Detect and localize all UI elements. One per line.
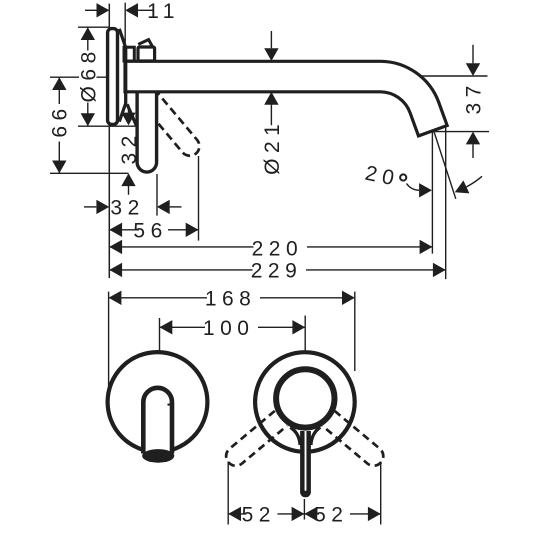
svg-text:220: 220 <box>252 237 304 260</box>
dimension 37 arrows <box>472 45 474 64</box>
extension line 168 left <box>108 292 110 394</box>
extension line 100 right <box>304 316 306 351</box>
handle small tick <box>168 403 172 406</box>
dimension 66 line <box>58 77 60 173</box>
svg-text:100: 100 <box>203 317 255 340</box>
extension line escutcheon front (11 dim) <box>124 3 126 48</box>
extension line 52 right <box>380 462 382 525</box>
dimension 229 line <box>109 269 445 271</box>
svg-text:11: 11 <box>147 0 180 23</box>
extension line 52 center <box>303 499 305 520</box>
cartridge block large <box>138 47 155 61</box>
svg-text:37: 37 <box>463 80 486 114</box>
svg-text:66: 66 <box>48 103 71 137</box>
dimension 56 line <box>109 229 198 231</box>
tick handle bottom (66 bottom) <box>50 172 129 174</box>
escutcheon circle left <box>108 352 208 452</box>
svg-text:32: 32 <box>110 197 144 220</box>
extension line 52 left <box>227 462 229 525</box>
svg-text:168: 168 <box>205 287 257 310</box>
svg-text:52: 52 <box>314 504 348 527</box>
dimension 220 line <box>109 246 432 248</box>
angle extension line outer (229) <box>445 127 447 279</box>
handle knob end <box>142 449 174 463</box>
wall line <box>108 4 110 278</box>
svg-text:Ø68: Ø68 <box>78 46 101 102</box>
dashed lever right <box>322 411 383 466</box>
extension line 168 right <box>354 292 356 371</box>
svg-text:Ø21: Ø21 <box>261 119 284 175</box>
dimension 32 vertical (handle) <box>128 105 130 113</box>
extension line 32 horizontal (handle right) <box>156 174 158 216</box>
angle extension line inner (220) <box>431 132 433 254</box>
escutcheon cone top slant <box>119 29 125 48</box>
20 degree slant line <box>434 132 456 199</box>
tick spout axis (66 top) <box>50 76 110 78</box>
dimension 32 horizontal <box>84 206 96 208</box>
tick plate top <box>78 26 110 28</box>
svg-text:229: 229 <box>251 260 303 283</box>
tick plate bottom <box>78 125 138 127</box>
cartridge block small <box>124 47 134 61</box>
escutcheon cone front face <box>124 47 127 105</box>
tick 37 top <box>421 75 488 77</box>
extension line 100 left <box>159 318 161 352</box>
escutcheon plate (side) <box>108 29 118 125</box>
handle lever (side view) <box>137 92 157 172</box>
tick 37 bottom <box>434 131 490 133</box>
lever tail fillet left <box>290 427 300 445</box>
20 degree left arrow <box>419 183 432 197</box>
dashed handle (rotated position) <box>140 89 200 156</box>
svg-text:56: 56 <box>133 219 167 242</box>
svg-text:52: 52 <box>242 504 276 527</box>
extension line 56 (dashed handle tip) <box>198 156 200 241</box>
escutcheon cone bottom slant <box>119 103 125 121</box>
escutcheon circle right <box>255 352 355 452</box>
dashed lever left <box>226 411 287 466</box>
lever tail <box>300 431 311 497</box>
handle base flare <box>127 104 136 125</box>
dimension diameter 68 line <box>87 27 89 126</box>
tilted screw cap <box>138 40 152 47</box>
lever ring <box>276 369 334 427</box>
dimension 11 line <box>85 9 97 11</box>
dimension diameter 21 arrows <box>270 31 272 48</box>
dimension 52+52 line <box>228 513 381 515</box>
lever tail fillet right <box>311 427 320 445</box>
handle front view (left unit) <box>143 388 172 454</box>
spout tube <box>125 61 447 136</box>
dimension 168 line <box>109 297 355 299</box>
dimension 100 line <box>160 326 306 328</box>
20 degree right arrow <box>455 180 470 193</box>
